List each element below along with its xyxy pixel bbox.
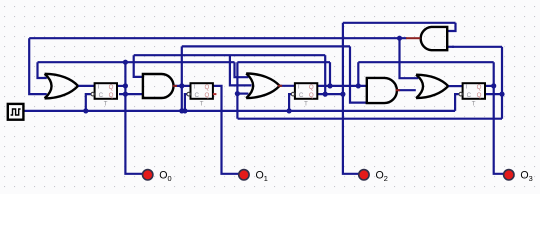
wire OR_C in2 drop (230, 55, 252, 85)
output pin O2 (359, 170, 388, 183)
wire y118 FF4 Qbar to OR_C (238, 118, 502, 120)
node clock / FF1 riser (83, 108, 88, 113)
wire R3b (452, 46, 502, 48)
node clock / FF3 riser (287, 108, 292, 113)
wire vertical x181.8 (181, 46, 183, 111)
output pin O0 (143, 170, 172, 183)
flip-flop FF2 (187, 83, 213, 107)
svg-text:T: T (104, 101, 108, 107)
node FF1.Q out (123, 83, 128, 88)
wire vertical x29 to OR_A in2 (29, 38, 47, 94)
node FF3.Qbar / O2 riser (340, 92, 345, 97)
and-gate AND_B (143, 74, 174, 98)
wire FF1 Q out (117, 85, 125, 87)
wire FF1 Qbar to AND_B in2 (119, 93, 143, 95)
svg-text:Q: Q (109, 92, 114, 99)
wire FF4 Q net vertical (494, 62, 504, 174)
node FF1.Qbar / AND_B.in2 (123, 92, 128, 97)
svg-text:C: C (99, 92, 104, 99)
wire clock line (23, 110, 455, 112)
wire W_B (134, 54, 326, 56)
wire V5 W3 to Q row (357, 62, 359, 86)
svg-text:Q: Q (205, 84, 210, 91)
svg-text:T: T (304, 101, 308, 107)
wire OR_C out to FF3 (279, 85, 295, 87)
wire R3 (182, 45, 350, 47)
node Q row / V2 (327, 83, 332, 88)
wire OR_A out to FF1 (78, 85, 95, 87)
wire V2 (329, 62, 331, 86)
wire FF2 Q to O1 (213, 86, 239, 174)
wire OR_A input1 drop (38, 62, 47, 78)
wire W3 (358, 61, 493, 63)
svg-text:Q: Q (205, 92, 210, 99)
svg-text:C: C (467, 92, 472, 99)
svg-text:C: C (195, 92, 200, 99)
svg-text:Q: Q (309, 92, 314, 99)
svg-text:Q: Q (109, 84, 114, 91)
output pin O1 (239, 170, 268, 183)
wire V1 (324, 55, 326, 94)
node clock / x181 (179, 108, 184, 113)
node Q row / V5 (356, 83, 361, 88)
wire FF3 clock riser (289, 94, 291, 111)
node R2 / OR_E.in1 (397, 36, 402, 41)
clock input CLK (8, 104, 24, 120)
node AND_B.out / x181 (179, 83, 184, 88)
svg-text:T: T (297, 84, 301, 91)
and-gate AND_F top right (west-facing) (421, 27, 448, 50)
wire FF2 clock riser (185, 94, 187, 111)
wire W1a (38, 61, 235, 63)
or-gate OR_A (45, 74, 78, 99)
wire FF4 Q out (485, 85, 494, 87)
svg-text:T: T (200, 101, 204, 107)
svg-text:T: T (465, 84, 469, 91)
wire FF3 Q row to AND_D in1 (317, 85, 367, 87)
or-gate OR_E (416, 75, 448, 98)
wire AND_D out to OR_E in2 (396, 89, 415, 91)
wire OR_C in3 stub (237, 92, 248, 94)
wire AND_B out to FF2 (173, 85, 190, 87)
wire OR_C in3 riser (236, 62, 238, 118)
flip-flop FF1 (91, 83, 117, 107)
node FF3.Qbar / V1 (323, 92, 328, 97)
flip-flop FF4 (459, 83, 485, 107)
wire FF3 Qbar (317, 93, 343, 95)
svg-text:T: T (472, 101, 476, 107)
wire AND_F input2 stub (447, 46, 454, 48)
wire OR_E out to FF4 (448, 85, 463, 87)
node clock / FF2 riser (182, 108, 187, 113)
wire V4 R3 to AND_D in2 (350, 46, 367, 102)
svg-text:T: T (97, 84, 101, 91)
and-gate AND_D (367, 78, 397, 103)
svg-text:C: C (299, 92, 304, 99)
red stubs at gate outputs (173, 86, 400, 90)
wire OR_C in1 drop (235, 62, 249, 77)
wire FF4 Qbar (485, 93, 502, 95)
svg-text:Q: Q (309, 84, 314, 91)
wire AND_B in1 drop (134, 55, 143, 77)
wire vertical x502 (501, 47, 503, 119)
svg-text:T: T (193, 84, 197, 91)
svg-text:Q: Q (477, 84, 482, 91)
wire FF4 clock riser (455, 94, 459, 111)
wire R2 long top wire (29, 37, 406, 39)
node FF4.Qbar / x502 (499, 92, 504, 97)
wire FF1 Q net vertical (125, 62, 142, 174)
output pin O3 (504, 170, 533, 183)
wire OR_E in1 riser (400, 38, 419, 78)
node OR_C.in3 / riser (235, 91, 240, 96)
wire FF1 clock riser (86, 94, 91, 111)
or-gate OR_C (246, 74, 279, 99)
wire O2 riser from AND_F loop (343, 23, 359, 174)
node FF1.Q / W1 (123, 60, 128, 65)
flip-flop FF3 (291, 83, 317, 107)
node FF4.Q / O3 riser (491, 83, 496, 88)
wire AND_F red output stub (406, 37, 420, 39)
svg-text:Q: Q (477, 92, 482, 99)
wire R1 AND_F output loop top (343, 22, 456, 24)
wire W1b (237, 61, 330, 63)
node FF2.Qbar red stub (213, 93, 217, 95)
wire AND_F input1 from loop (447, 23, 455, 31)
